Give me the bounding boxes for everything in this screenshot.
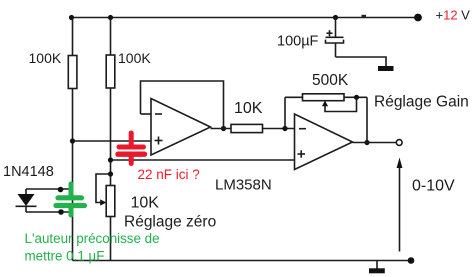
svg-text:L'auteur préconisse de: L'auteur préconisse de xyxy=(25,231,160,246)
svg-text:0-10V: 0-10V xyxy=(412,178,455,195)
svg-text:Réglage Gain: Réglage Gain xyxy=(374,94,469,111)
svg-text:100K: 100K xyxy=(118,50,151,66)
svg-text:500K: 500K xyxy=(312,72,349,89)
svg-text:10K: 10K xyxy=(131,195,160,212)
svg-text:LM358N: LM358N xyxy=(215,177,272,194)
svg-text:22 nF ici ?: 22 nF ici ? xyxy=(138,167,200,182)
svg-text:100K: 100K xyxy=(29,50,62,66)
svg-text:10K: 10K xyxy=(234,100,263,117)
svg-text:100µF: 100µF xyxy=(277,34,319,50)
svg-text:Réglage zéro: Réglage zéro xyxy=(124,214,216,231)
svg-text:1N4148: 1N4148 xyxy=(3,164,54,180)
svg-text:mettre 0.1 µF: mettre 0.1 µF xyxy=(25,249,105,264)
svg-text:+12 V: +12 V xyxy=(436,8,471,23)
